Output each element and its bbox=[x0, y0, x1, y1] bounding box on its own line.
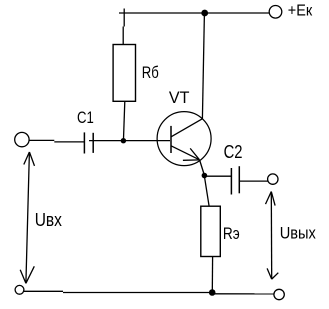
svg-text:Uвых: Uвых bbox=[280, 224, 317, 243]
svg-text:Rб: Rб bbox=[142, 63, 159, 82]
svg-text:Uвх: Uвх bbox=[35, 210, 62, 230]
svg-text:C1: C1 bbox=[77, 108, 94, 127]
svg-text:+Ек: +Ек bbox=[288, 3, 312, 20]
svg-text:VT: VT bbox=[169, 88, 190, 107]
svg-text:C2: C2 bbox=[224, 142, 243, 162]
svg-text:Rэ: Rэ bbox=[223, 224, 240, 243]
